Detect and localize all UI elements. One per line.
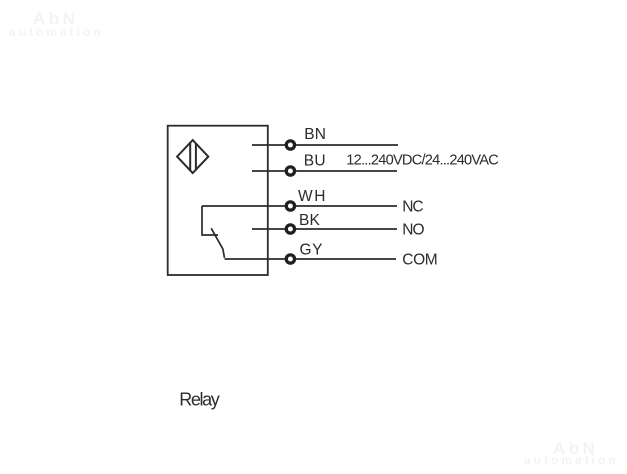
- svg-text:NO: NO: [402, 222, 424, 239]
- svg-text:Relay: Relay: [179, 389, 219, 409]
- svg-text:NC: NC: [402, 199, 423, 216]
- svg-text:WH: WH: [298, 188, 326, 205]
- svg-text:BK: BK: [299, 212, 320, 229]
- svg-text:GY: GY: [300, 241, 323, 258]
- svg-text:BN: BN: [304, 126, 326, 143]
- svg-text:COM: COM: [402, 251, 437, 268]
- svg-text:BU: BU: [304, 153, 326, 170]
- svg-text:12...240VDC/24...240VAC: 12...240VDC/24...240VAC: [346, 152, 499, 168]
